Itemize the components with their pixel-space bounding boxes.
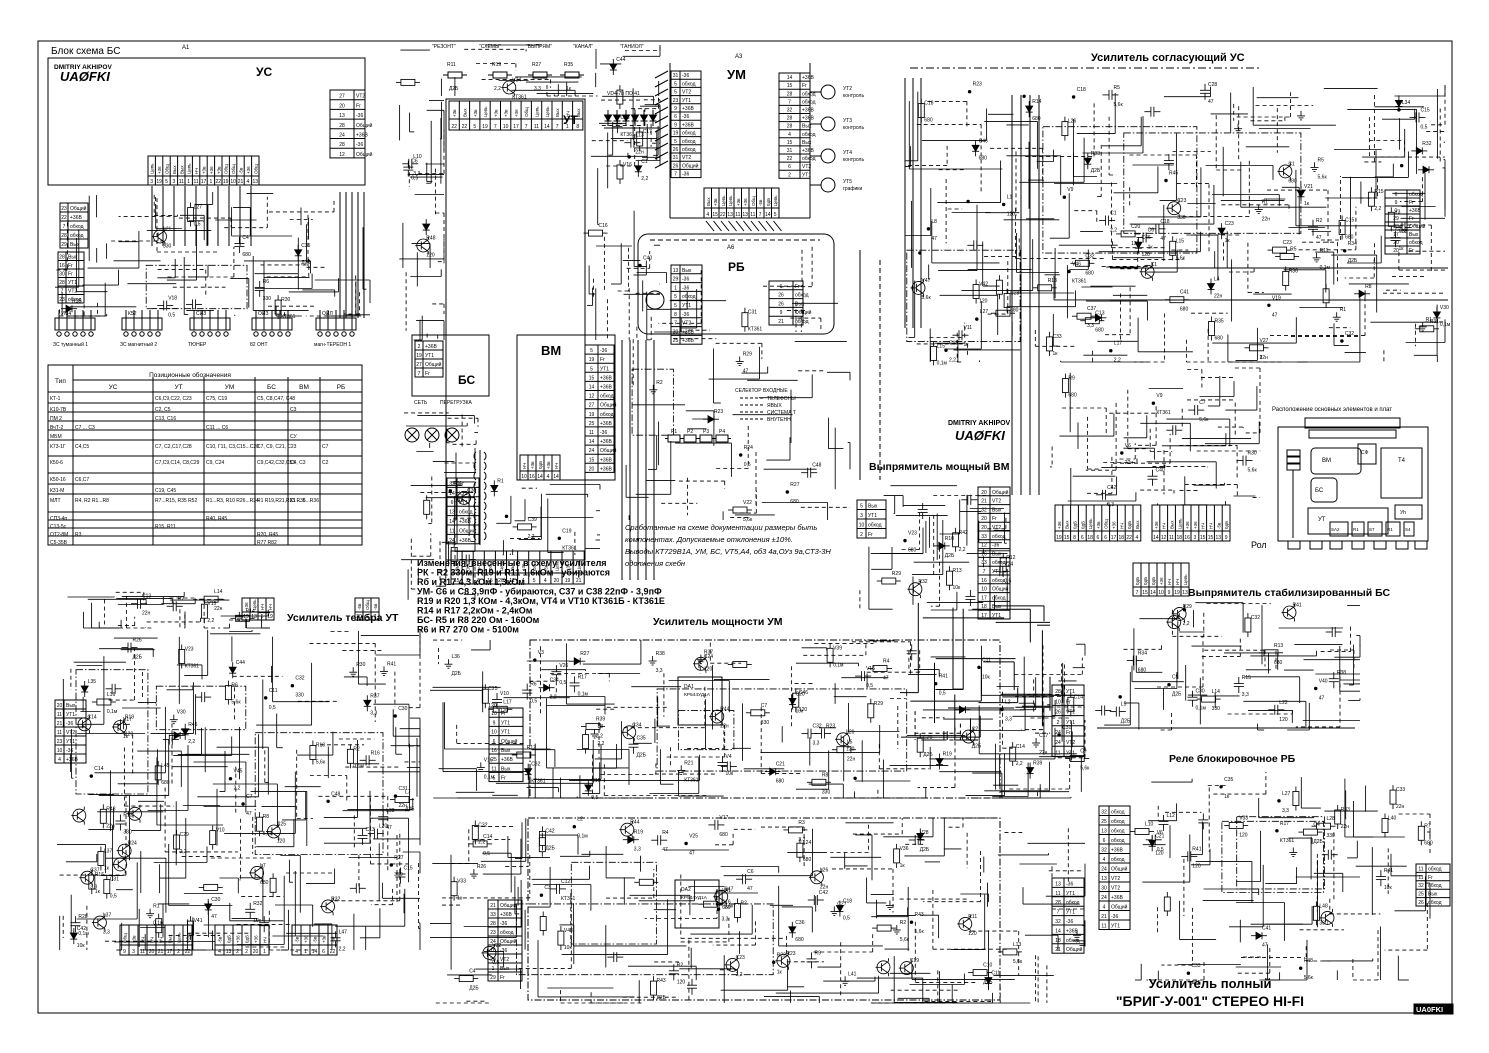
svg-text:7: 7: [1136, 590, 1139, 596]
svg-text:22н: 22н: [106, 823, 115, 829]
svg-text:1к: 1к: [1399, 246, 1405, 252]
svg-text:Рол: Рол: [1251, 540, 1267, 550]
svg-text:+36: +36: [236, 935, 241, 943]
svg-text:19: 19: [589, 357, 595, 363]
svg-text:Вых: Вых: [1065, 520, 1070, 529]
svg-text:5,6к: 5,6к: [724, 904, 734, 910]
svg-text:УТ1: УТ1: [682, 98, 691, 104]
svg-text:С4,С5: С4,С5: [75, 444, 89, 450]
svg-text:18: 18: [1087, 535, 1093, 541]
svg-text:26: 26: [778, 293, 784, 299]
svg-text:+36В: +36В: [600, 457, 612, 463]
svg-text:C35: C35: [301, 243, 310, 249]
svg-text:R24: R24: [128, 841, 137, 847]
svg-text:C34: C34: [550, 678, 559, 684]
svg-text:НЧ: НЧ: [1167, 579, 1172, 585]
svg-text:11: 11: [735, 212, 740, 218]
svg-text:С7, С2,С17,С28: С7, С2,С17,С28: [155, 444, 192, 450]
svg-text:13: 13: [251, 614, 257, 620]
svg-text:обход: обход: [1111, 810, 1125, 816]
svg-text:R32: R32: [1422, 141, 1431, 147]
svg-text:32: 32: [1055, 919, 1061, 925]
svg-text:Вых: Вых: [168, 934, 173, 943]
svg-text:КТ361: КТ361: [512, 95, 527, 101]
svg-text:НЧ: НЧ: [1175, 579, 1180, 585]
svg-text:Общий: Общий: [1066, 946, 1083, 953]
svg-text:15: 15: [1142, 590, 1148, 596]
svg-text:0дБ: 0дБ: [227, 935, 232, 943]
svg-text:680: 680: [1345, 235, 1354, 241]
svg-text:обход: обход: [992, 534, 1006, 540]
svg-text:47: 47: [747, 886, 753, 892]
svg-text:Вых: Вых: [179, 165, 184, 174]
svg-text:UAØFKI: UAØFKI: [60, 69, 110, 84]
svg-text:обход: обход: [802, 156, 816, 162]
svg-text:Вых: Вых: [1135, 520, 1140, 529]
svg-text:R41: R41: [1384, 868, 1393, 874]
svg-text:9: 9: [1168, 590, 1171, 596]
svg-text:15: 15: [1064, 535, 1070, 541]
svg-text:16: 16: [981, 578, 987, 584]
svg-text:+36: +36: [1185, 521, 1190, 529]
svg-text:28: 28: [61, 233, 67, 239]
svg-text:Р3: Р3: [703, 429, 709, 435]
svg-text:680: 680: [260, 880, 269, 886]
svg-text:Fг: Fг: [992, 516, 997, 522]
svg-text:Общ: Общ: [524, 107, 529, 117]
svg-text:28: 28: [339, 142, 345, 148]
svg-text:17: 17: [201, 179, 207, 185]
svg-text:L14: L14: [214, 589, 223, 595]
svg-text:КТ361: КТ361: [748, 327, 763, 333]
svg-text:13: 13: [449, 510, 455, 516]
svg-text:Д2Б: Д2Б: [923, 752, 933, 758]
svg-text:680: 680: [1215, 336, 1224, 342]
svg-text:С13-5с: С13-5с: [50, 524, 67, 530]
svg-text:0,5: 0,5: [1421, 124, 1428, 130]
svg-text:3: 3: [150, 179, 153, 185]
svg-text:Вых: Вых: [1409, 232, 1419, 238]
svg-text:R9: R9: [1068, 376, 1075, 382]
svg-text:V9: V9: [1156, 393, 1162, 399]
svg-text:ПЕРЕГРУЗКА: ПЕРЕГРУЗКА: [440, 400, 473, 406]
svg-text:15: 15: [589, 375, 595, 381]
svg-text:обход: обход: [1409, 192, 1423, 198]
svg-text:"БРИГ-У-001" СТЕРЕО HI-FI: "БРИГ-У-001" СТЕРЕО HI-FI: [1116, 993, 1304, 1009]
svg-text:обход: обход: [500, 930, 514, 936]
svg-text:24: 24: [339, 133, 345, 139]
svg-text:13: 13: [253, 179, 259, 185]
svg-text:5: 5: [774, 212, 777, 218]
svg-text:9: 9: [123, 949, 126, 955]
svg-text:21: 21: [981, 499, 987, 505]
svg-text:5: 5: [674, 81, 677, 87]
svg-text:20: 20: [490, 957, 496, 963]
svg-text:L10: L10: [1145, 822, 1154, 828]
svg-text:Вых: Вых: [1428, 892, 1438, 898]
svg-text:L22: L22: [1279, 700, 1288, 706]
svg-text:15: 15: [1208, 535, 1214, 541]
svg-text:обход: обход: [70, 233, 84, 239]
svg-text:22: 22: [216, 179, 222, 185]
svg-text:23: 23: [59, 297, 65, 303]
svg-text:Цепь: Цепь: [187, 163, 192, 174]
svg-text:R5: R5: [1318, 157, 1325, 163]
svg-text:47: 47: [1160, 236, 1166, 242]
svg-text:10: 10: [859, 523, 865, 529]
svg-text:5,6к: 5,6к: [900, 937, 910, 943]
svg-text:V39: V39: [833, 645, 842, 651]
svg-text:Fг: Fг: [1409, 248, 1414, 254]
svg-text:680: 680: [1095, 328, 1104, 334]
svg-text:20: 20: [253, 949, 259, 955]
svg-text:R1: R1: [497, 478, 504, 484]
svg-text:18: 18: [1055, 938, 1061, 944]
svg-text:47: 47: [1319, 696, 1325, 702]
svg-text:НЧ: НЧ: [150, 937, 155, 943]
svg-text:L41: L41: [848, 971, 857, 977]
svg-text:НЧ: НЧ: [522, 463, 527, 469]
svg-text:11: 11: [57, 730, 62, 736]
svg-text:С7, С9, С21, С23: С7, С9, С21, С23: [257, 444, 297, 450]
svg-text:5: 5: [590, 366, 593, 372]
svg-text:УМ: УМ: [727, 67, 746, 82]
svg-text:обход: обход: [1066, 900, 1080, 906]
svg-text:-36: -36: [356, 142, 363, 148]
svg-text:К73-1Г: К73-1Г: [50, 444, 66, 450]
svg-text:16: 16: [981, 551, 987, 557]
svg-text:L27: L27: [194, 205, 203, 211]
svg-text:UA0FKI: UA0FKI: [1416, 1005, 1443, 1014]
svg-text:12: 12: [339, 152, 345, 158]
svg-text:-36: -36: [500, 921, 507, 927]
svg-text:24: 24: [1055, 740, 1061, 746]
svg-text:Fг: Fг: [356, 103, 361, 109]
svg-text:0,5: 0,5: [110, 894, 117, 900]
svg-text:14: 14: [589, 439, 595, 445]
svg-text:13: 13: [727, 212, 733, 218]
svg-text:120: 120: [677, 979, 686, 985]
svg-text:19: 19: [482, 124, 488, 130]
svg-text:C21: C21: [776, 762, 785, 768]
svg-text:-36: -36: [500, 948, 507, 954]
svg-text:БС: БС: [267, 384, 276, 391]
svg-text:680: 680: [803, 857, 812, 863]
svg-text:Общий: Общий: [425, 361, 442, 368]
svg-text:5: 5: [590, 348, 593, 354]
svg-text:C34: C34: [632, 722, 641, 728]
svg-text:Общий: Общий: [682, 162, 699, 169]
svg-text:графики: графики: [843, 186, 862, 192]
svg-text:6: 6: [1104, 535, 1107, 541]
svg-text:СИСТЕМА Т: СИСТЕМА Т: [767, 410, 796, 416]
svg-text:Д2Б: Д2Б: [920, 847, 930, 853]
svg-text:+3в: +3в: [132, 935, 137, 943]
svg-text:1к: 1к: [104, 866, 110, 872]
svg-text:22: 22: [185, 949, 191, 955]
svg-text:22н: 22н: [1214, 294, 1223, 300]
svg-text:L20: L20: [846, 729, 855, 735]
svg-text:Fг: Fг: [501, 711, 506, 717]
svg-text:R8: R8: [1365, 284, 1372, 290]
svg-text:5: 5: [674, 294, 677, 300]
svg-text:0,1м: 0,1м: [577, 834, 588, 840]
svg-text:9: 9: [1225, 535, 1228, 541]
svg-text:"РЕЗОНТ": "РЕЗОНТ": [432, 44, 456, 50]
svg-text:обход: обход: [992, 578, 1006, 584]
svg-text:-5в: -5в: [239, 167, 244, 174]
svg-text:5,6к: 5,6к: [1080, 766, 1090, 772]
svg-text:47: 47: [743, 369, 749, 375]
svg-text:11: 11: [193, 179, 198, 185]
svg-text:3: 3: [860, 513, 863, 519]
svg-text:УТ1: УТ1: [1066, 891, 1075, 897]
svg-text:R6: R6: [231, 683, 238, 689]
svg-text:V47: V47: [922, 278, 931, 284]
svg-text:Общий: Общий: [70, 205, 87, 212]
svg-text:обход: обход: [1428, 883, 1442, 889]
svg-text:С6,С9,С22, С23: С6,С9,С22, С23: [155, 396, 192, 402]
svg-text:28: 28: [787, 116, 793, 122]
svg-text:0дБ: 0дБ: [1135, 577, 1140, 585]
svg-text:C19: C19: [562, 528, 571, 534]
svg-text:УМ4: УМ4: [61, 311, 71, 317]
svg-text:1: 1: [566, 124, 569, 130]
svg-text:УТ3: УТ3: [843, 118, 852, 124]
svg-text:2,2: 2,2: [207, 618, 214, 624]
svg-text:R19: R19: [125, 714, 134, 720]
svg-text:C16: C16: [599, 223, 608, 229]
svg-text:C42: C42: [1107, 485, 1116, 491]
svg-text:R37: R37: [370, 693, 379, 699]
svg-text:31: 31: [673, 155, 679, 161]
svg-text:C32: C32: [1251, 615, 1260, 621]
svg-text:обход: обход: [1111, 857, 1125, 863]
svg-text:21: 21: [158, 949, 164, 955]
svg-text:R40, R45: R40, R45: [206, 516, 227, 522]
svg-text:13: 13: [226, 949, 232, 955]
svg-text:R6: R6: [530, 682, 537, 688]
svg-text:Общ: Общ: [253, 164, 258, 174]
svg-text:+3в: +3в: [493, 109, 498, 117]
svg-text:обход: обход: [1111, 829, 1125, 835]
svg-text:C40: C40: [1156, 468, 1165, 474]
svg-text:8: 8: [576, 124, 579, 130]
svg-text:47: 47: [1262, 943, 1268, 949]
svg-text:C14: C14: [88, 714, 97, 720]
svg-text:R30: R30: [1248, 451, 1257, 457]
svg-text:29: 29: [1393, 216, 1399, 222]
svg-text:Вых: Вых: [172, 165, 177, 174]
svg-text:10: 10: [490, 948, 496, 954]
svg-text:Fг: Fг: [600, 357, 605, 363]
svg-text:13: 13: [673, 268, 679, 274]
svg-text:27: 27: [339, 94, 345, 100]
svg-text:R23: R23: [714, 409, 723, 415]
svg-text:S7: S7: [1369, 527, 1375, 532]
svg-text:1: 1: [187, 179, 190, 185]
svg-text:C25: C25: [277, 822, 286, 828]
svg-text:680: 680: [795, 937, 804, 943]
svg-text:БС: БС: [458, 373, 475, 387]
svg-text:+36В: +36В: [425, 344, 437, 350]
svg-text:DA2: DA2: [681, 887, 691, 893]
svg-text:9: 9: [1395, 200, 1398, 206]
svg-text:Общий: Общий: [356, 122, 373, 129]
svg-text:23: 23: [61, 206, 67, 212]
svg-text:L17: L17: [503, 699, 512, 705]
svg-text:13: 13: [1055, 881, 1061, 887]
svg-text:22: 22: [720, 212, 726, 218]
svg-text:К52: К52: [128, 311, 137, 317]
svg-text:10: 10: [491, 711, 497, 717]
svg-text:-36: -36: [1066, 881, 1073, 887]
svg-text:обход: обход: [682, 131, 696, 137]
svg-text:Р2: Р2: [687, 429, 693, 435]
svg-text:22: 22: [462, 124, 468, 130]
svg-text:22н: 22н: [635, 150, 644, 156]
svg-text:1: 1: [492, 966, 495, 972]
svg-text:С19, С45: С19, С45: [155, 488, 176, 494]
svg-text:C4: C4: [469, 969, 476, 975]
svg-text:3,3: 3,3: [1005, 717, 1012, 723]
svg-text:-5в: -5в: [295, 936, 300, 943]
svg-text:12: 12: [981, 543, 987, 549]
svg-text:3,3: 3,3: [634, 847, 641, 853]
svg-text:УТ1: УТ1: [802, 172, 811, 178]
svg-text:МЛТ: МЛТ: [50, 498, 61, 504]
svg-text:ЗС магнитный 2: ЗС магнитный 2: [120, 341, 157, 348]
svg-text:V15: V15: [866, 666, 875, 672]
svg-text:20: 20: [981, 490, 987, 496]
svg-text:C1: C1: [1288, 161, 1295, 167]
svg-text:+36: +36: [254, 935, 259, 943]
svg-text:1к: 1к: [457, 896, 463, 902]
svg-text:3,3: 3,3: [813, 741, 820, 747]
svg-text:680: 680: [161, 780, 170, 786]
svg-text:28: 28: [59, 280, 65, 286]
svg-text:3,3: 3,3: [90, 885, 97, 891]
svg-text:V28: V28: [920, 830, 929, 836]
svg-text:Выпрямитель мощный ВМ: Выпрямитель мощный ВМ: [869, 461, 1010, 473]
svg-text:L35: L35: [88, 679, 97, 685]
svg-text:R26: R26: [133, 638, 142, 644]
svg-text:21: 21: [57, 721, 63, 727]
svg-text:33: 33: [490, 912, 496, 918]
svg-text:Вых: Вых: [555, 108, 560, 117]
svg-text:C35: C35: [637, 736, 646, 742]
svg-text:"СХЕМЫ": "СХЕМЫ": [479, 44, 501, 50]
svg-text:R19: R19: [492, 62, 501, 68]
svg-text:47: 47: [931, 236, 937, 242]
svg-text:R15: R15: [1242, 675, 1251, 681]
svg-text:+36: +36: [1112, 521, 1117, 529]
svg-text:10: 10: [230, 179, 236, 185]
svg-text:-36: -36: [682, 73, 689, 79]
svg-text:Изменения, внесенные в схему у: Изменения, внесенные в схему усилителя: [417, 558, 607, 568]
svg-text:R37: R37: [704, 650, 713, 656]
svg-text:C15: C15: [591, 778, 600, 784]
svg-text:-36: -36: [992, 543, 999, 549]
svg-text:24: 24: [490, 939, 496, 945]
svg-text:11: 11: [1101, 924, 1106, 930]
svg-text:C7: C7: [246, 794, 253, 800]
svg-text:1к: 1к: [1148, 245, 1154, 251]
svg-text:6: 6: [1081, 535, 1084, 541]
svg-text:R2: R2: [178, 596, 185, 602]
svg-text:C18: C18: [1077, 87, 1086, 93]
svg-text:V23: V23: [185, 647, 194, 653]
svg-text:Цепь: Цепь: [728, 195, 733, 206]
svg-text:19: 19: [565, 578, 571, 584]
svg-text:R11: R11: [968, 914, 977, 920]
svg-text:КР544УД1А: КР544УД1А: [681, 895, 708, 901]
svg-text:УТ5: УТ5: [843, 179, 852, 185]
svg-text:обход: обход: [600, 394, 614, 400]
svg-text:Fг: Fг: [68, 272, 73, 278]
svg-text:Р4: Р4: [719, 429, 725, 435]
svg-text:10: 10: [57, 748, 63, 754]
svg-text:0,1м: 0,1м: [78, 931, 89, 937]
svg-text:+36В: +36В: [66, 757, 78, 763]
svg-text:+36В: +36В: [1409, 208, 1421, 214]
svg-text:С7,С9,С14, С8,С29: С7,С9,С14, С8,С29: [155, 460, 200, 466]
svg-text:L14: L14: [1212, 689, 1221, 695]
svg-text:5: 5: [674, 303, 677, 309]
svg-text:19: 19: [243, 614, 249, 620]
svg-text:0,1м: 0,1м: [107, 709, 118, 715]
svg-text:DMITRIY AKHIPOV: DMITRIY AKHIPOV: [948, 420, 1011, 427]
svg-text:32: 32: [1418, 883, 1424, 889]
svg-text:16: 16: [1184, 535, 1190, 541]
svg-text:C32: C32: [1085, 253, 1094, 259]
svg-text:15: 15: [787, 140, 793, 146]
svg-text:28: 28: [59, 255, 65, 261]
svg-text:УТ1: УТ1: [1111, 924, 1120, 930]
svg-text:-5в: -5в: [313, 936, 318, 943]
svg-text:47: 47: [246, 811, 252, 817]
svg-text:C46: C46: [979, 138, 988, 144]
svg-text:Вых: Вых: [682, 268, 692, 274]
svg-text:1к: 1к: [900, 863, 906, 869]
svg-text:обход: обход: [795, 293, 809, 299]
svg-text:2: 2: [177, 949, 180, 955]
svg-text:C23: C23: [1225, 221, 1234, 227]
svg-text:2,2: 2,2: [478, 839, 485, 845]
svg-text:680: 680: [719, 832, 728, 838]
svg-text:16: 16: [491, 748, 497, 754]
svg-text:Т4: Т4: [1398, 458, 1406, 464]
svg-text:-36: -36: [600, 348, 607, 354]
svg-text:680: 680: [908, 548, 917, 554]
svg-text:Общий: Общий: [459, 527, 476, 534]
svg-text:27: 27: [416, 362, 422, 368]
svg-text:R20, R45: R20, R45: [257, 532, 278, 538]
svg-text:22: 22: [330, 949, 336, 955]
svg-text:7: 7: [674, 172, 677, 178]
svg-text:V30: V30: [1440, 305, 1449, 311]
svg-text:Цепь: Цепь: [1088, 518, 1093, 529]
svg-text:-36: -36: [682, 277, 689, 283]
svg-text:C20: C20: [1131, 224, 1140, 230]
svg-text:Д2Б: Д2Б: [1091, 168, 1101, 174]
svg-text:L28: L28: [1327, 816, 1336, 822]
svg-text:5: 5: [674, 139, 677, 145]
svg-text:Общий: Общий: [992, 489, 1009, 496]
svg-text:R11: R11: [453, 481, 462, 487]
svg-text:C44: C44: [616, 57, 625, 63]
svg-text:Цепь: Цепь: [1183, 574, 1188, 585]
